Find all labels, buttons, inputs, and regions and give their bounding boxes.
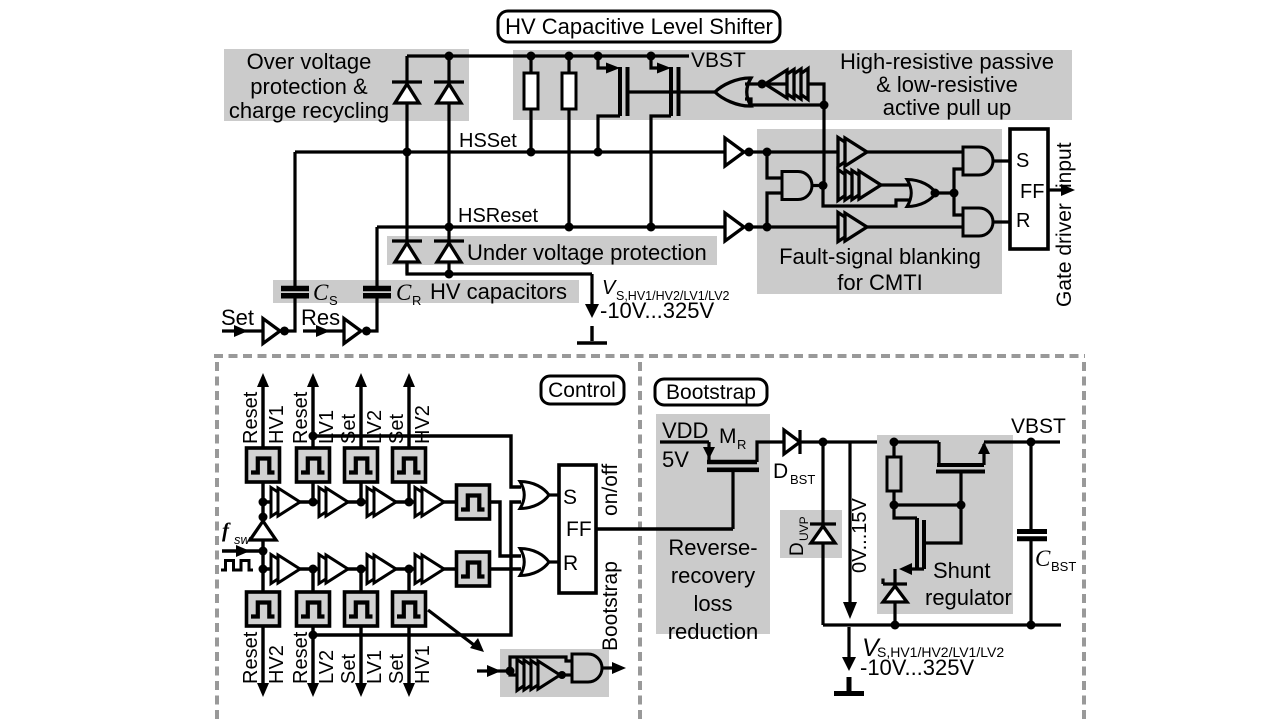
zener diode D-z (883, 579, 907, 626)
node dots top chain (259, 498, 414, 507)
label: shunt regulator (925, 558, 1012, 610)
svg-text:Set: Set (221, 305, 254, 330)
diode D-uvp1 (392, 241, 422, 274)
svg-text:HV1: HV1 (412, 645, 434, 684)
transistor M-sh2 (lower shunt MOS) (894, 505, 961, 584)
dashed separator horizontal (214, 354, 1085, 358)
buffer U-c1 (271, 488, 300, 517)
label: fault-signal blanking (779, 244, 981, 295)
svg-text:recovery: recovery (671, 563, 755, 588)
wire: VBST rail bootstrap (894, 440, 1060, 443)
delay element U-dly1 (left pointing) (765, 69, 808, 100)
delay element U-f2 (838, 170, 910, 201)
transistor M-sh1 (upper shunt PMOS) (936, 442, 990, 505)
svg-text:LV2: LV2 (316, 650, 338, 684)
label box: Bootstrap (655, 379, 767, 405)
pulse channel Set/LV2 (top) (338, 373, 386, 502)
capacitor CBST (1017, 442, 1047, 625)
label box: Control (541, 376, 624, 404)
svg-text:UVP: UVP (797, 516, 811, 541)
wire: gate line to NOR (627, 90, 716, 93)
svg-text:Set: Set (338, 414, 360, 444)
wire: S/R AND input link (954, 169, 963, 215)
diode DUVP (810, 442, 836, 625)
arrow: VS down (top section) (585, 274, 599, 318)
wire: top buffer chain (263, 500, 457, 503)
svg-text:LV2: LV2 (364, 410, 386, 444)
svg-text:M: M (719, 425, 737, 448)
grey box: high-resistive passive pull up (513, 50, 1072, 120)
svg-text:Bootstrap: Bootstrap (666, 381, 756, 404)
svg-text:S: S (563, 486, 577, 509)
wire: HSSet line (295, 150, 963, 153)
svg-text:Reset: Reset (290, 631, 312, 684)
pulse channel Set/LV1 (bottom) (338, 569, 386, 697)
node: uvp junction (445, 270, 454, 279)
svg-text:Reverse-: Reverse- (668, 535, 757, 560)
resistor R2 (562, 56, 576, 227)
symbol: clock waveform (221, 561, 253, 571)
wire: vertical to AND output node (822, 105, 825, 185)
label: fsw (222, 518, 252, 547)
diode DBST (784, 430, 894, 454)
svg-text:VDD: VDD (662, 418, 708, 443)
wire: R to FF (992, 220, 1010, 223)
flip-flop FF2 (control) (559, 465, 596, 593)
dashed separator right vertical (1082, 362, 1086, 722)
buffer U-br (HSReset buffer) (725, 213, 744, 241)
buffer U-c5 (271, 555, 300, 584)
svg-text:input: input (1053, 142, 1076, 188)
svg-text:Set: Set (338, 654, 360, 684)
and-gate U-f6 (S) (963, 147, 993, 175)
resistor R1 (524, 56, 538, 152)
wire: top feedback to S-OR (309, 432, 522, 488)
label: MR (719, 425, 746, 452)
buffer U-fsw (clock input) (250, 502, 276, 569)
pulse channel Reset/LV1 (top) (290, 373, 338, 502)
grey box: reverse-recovery loss reduction (656, 414, 770, 634)
label: DBST (773, 460, 815, 487)
ground: top section (577, 326, 607, 343)
capacitor CR (362, 227, 391, 336)
wire: HSReset line (377, 225, 963, 228)
buffer U-res with input (301, 305, 361, 344)
label: CS (313, 280, 338, 308)
label: VS,HV1/HV2/LV1/LV2 (600, 277, 730, 323)
wire: fsw input arrow (222, 545, 263, 557)
wire: legend bypass (510, 657, 572, 671)
svg-text:HSSet: HSSet (459, 130, 517, 152)
node: loop corner dot (820, 101, 829, 110)
buffer U-c2 (319, 488, 348, 517)
svg-text:on/off: on/off (599, 464, 622, 516)
grey box: fault-signal blanking (757, 129, 1002, 294)
buffer U-set with input (221, 305, 280, 344)
svg-text:HV2: HV2 (266, 645, 288, 684)
svg-text:BST: BST (790, 472, 815, 487)
capacitor CS (280, 152, 309, 336)
or-gate U-pu (left pointing) (715, 78, 751, 106)
wire: blanking lower path (823, 186, 910, 207)
wire: S to FF (992, 159, 1010, 162)
svg-text:Reset: Reset (240, 631, 262, 684)
node dots on rails (403, 52, 772, 232)
pulse channel Reset/HV2 (bottom) (240, 569, 288, 697)
svg-text:C: C (396, 280, 412, 305)
svg-text:reduction: reduction (668, 619, 759, 644)
buffer U-f5 (2 stage) (838, 213, 867, 242)
svg-text:Res: Res (301, 305, 340, 330)
dashed separator left vertical (215, 362, 219, 722)
node: mid node dots (890, 501, 966, 510)
and-gate U-f1 (767, 152, 828, 227)
label: CBST (1035, 546, 1076, 574)
pulse generator PG-R (457, 552, 490, 586)
pulse channel Reset/HV1 (top) (240, 373, 288, 502)
buffer U-c4 (415, 488, 444, 517)
node: zener bottom (891, 621, 900, 630)
arrow: legend pointer (428, 610, 484, 652)
wire: bootstrap bottom rail (823, 623, 1061, 626)
svg-text:Bootstrap: Bootstrap (599, 561, 622, 651)
buffer U-c8 (415, 555, 444, 584)
delay element U-leg1 (517, 660, 572, 691)
wire: legend input (477, 665, 518, 677)
svg-text:FF: FF (566, 518, 592, 541)
node: DBST output (819, 438, 828, 447)
svg-text:for CMTI: for CMTI (837, 270, 923, 295)
svg-text:regulator: regulator (925, 585, 1012, 610)
label: reverse-recovery text (668, 535, 759, 644)
svg-text:LV1: LV1 (316, 410, 338, 444)
ground: bootstrap (834, 677, 864, 694)
wire: VS node (top) (407, 262, 592, 274)
svg-text:FF: FF (1020, 181, 1044, 203)
buffer U-c7 (367, 555, 396, 584)
svg-text:Over voltage: Over voltage (247, 49, 372, 74)
svg-text:sw: sw (234, 532, 252, 547)
svg-text:loss: loss (693, 591, 732, 616)
pulse channel Reset/LV2 (bottom) (290, 569, 338, 697)
pulse generator PG-S (457, 485, 490, 519)
svg-text:Under voltage protection: Under voltage protection (467, 240, 707, 265)
svg-text:LV1: LV1 (364, 650, 386, 684)
or-gate U-or-r (520, 549, 559, 576)
grey box: shunt regulator (877, 435, 1013, 614)
svg-text:-10V...325V: -10V...325V (600, 298, 714, 323)
wire: PG-S output to R-OR (489, 502, 521, 556)
svg-text:Fault-signal blanking: Fault-signal blanking (779, 244, 981, 269)
transistor M-pu2 (PMOS pull-up) (651, 56, 679, 227)
wire: delay input loop (745, 84, 824, 105)
wire: bottom feedback to S-OR (309, 502, 522, 640)
or-gate U-f3 (907, 180, 959, 207)
transistor MR (660, 442, 784, 529)
diode D-ovp1 (392, 56, 422, 241)
svg-text:R: R (412, 293, 421, 308)
pulse channel Set/HV2 (top) (386, 373, 434, 502)
buffer U-c3 (367, 488, 396, 517)
svg-text:High-resistive passive: High-resistive passive (840, 49, 1054, 74)
svg-text:HV1: HV1 (266, 405, 288, 444)
transistor M-pu1 (PMOS pull-up) (598, 56, 628, 152)
label: CR (396, 280, 421, 308)
svg-text:C: C (1035, 546, 1051, 571)
svg-text:0V...15V: 0V...15V (849, 497, 871, 573)
svg-text:Reset: Reset (240, 391, 262, 444)
label: VDD 5V (662, 418, 708, 472)
buffer U-bs (HSSet buffer) (725, 138, 744, 166)
node: delay tip dot (758, 80, 767, 89)
svg-text:VBST: VBST (691, 49, 746, 72)
grey box: legend pulse generator (500, 649, 609, 697)
arrow: VS down (bootstrap) (842, 627, 856, 671)
svg-text:& low-resistive: & low-resistive (876, 72, 1018, 97)
title box: HV Capacitive Level Shifter (498, 11, 780, 42)
svg-text:5V: 5V (662, 447, 689, 472)
resistor R-sh (887, 442, 901, 505)
wire: FF output arrow (1048, 184, 1075, 196)
svg-text:R: R (737, 437, 746, 452)
svg-text:D: D (773, 460, 788, 483)
label: over voltage protection text (229, 49, 389, 123)
svg-text:S: S (1016, 150, 1029, 172)
diode D-ovp2 (434, 56, 464, 241)
node: VBST cap node (1027, 438, 1036, 447)
svg-text:HSReset: HSReset (458, 205, 538, 227)
grey box: over voltage protection & charge recycling (224, 49, 469, 121)
node: resistor top (890, 438, 899, 447)
buffer U-c6 (319, 555, 348, 584)
label: DUVP (rotated) (787, 516, 811, 556)
svg-text:R: R (1016, 210, 1030, 232)
label: VS bootstrap (860, 634, 1004, 680)
grey box: under voltage protection (387, 236, 717, 265)
and-gate U-leg2 (572, 654, 626, 682)
svg-text:BST: BST (1051, 559, 1076, 574)
wire: PG-R output to R-OR (489, 567, 521, 570)
grey box: DUVP label (780, 510, 842, 558)
grey box: HV capacitors (273, 280, 579, 303)
arrow: 0V...15V annotation (843, 442, 857, 619)
and-gate U-f7 (R) (963, 208, 993, 236)
wire: bottom buffer chain (263, 567, 457, 570)
wire: mid node link (894, 503, 961, 506)
pulse channel Set/HV1 (bottom) (386, 569, 434, 697)
svg-text:VBST: VBST (1011, 415, 1066, 438)
svg-text:-10V...325V: -10V...325V (860, 655, 974, 680)
or-gate U-or-s (520, 482, 559, 509)
svg-text:HV2: HV2 (412, 405, 434, 444)
node: CBST bottom (1027, 621, 1036, 630)
svg-text:active pull up: active pull up (883, 95, 1011, 120)
svg-text:protection &: protection & (250, 74, 368, 99)
svg-text:V: V (602, 277, 617, 299)
buffer U-f4 (2 stage) (838, 138, 867, 167)
svg-text:Set: Set (386, 654, 408, 684)
label: high-resistive passive text (840, 49, 1054, 120)
label: gate driver input (rotated) (1053, 142, 1076, 307)
svg-text:HV capacitors: HV capacitors (430, 279, 567, 304)
svg-text:C: C (313, 280, 329, 305)
svg-text:Set: Set (386, 414, 408, 444)
svg-text:charge recycling: charge recycling (229, 98, 389, 123)
flip-flop FF1 (1010, 129, 1048, 249)
svg-text:HV Capacitive Level Shifter: HV Capacitive Level Shifter (505, 14, 773, 39)
diode D-uvp2 (434, 241, 464, 274)
svg-text:Shunt: Shunt (933, 558, 991, 583)
svg-text:D: D (787, 542, 808, 556)
dashed separator middle vertical (638, 362, 642, 722)
node dots bottom chain (259, 565, 414, 574)
svg-text:Control: Control (548, 379, 616, 402)
svg-text:Gate driver: Gate driver (1053, 203, 1076, 307)
svg-text:R: R (563, 552, 578, 575)
wire: FF2 output to bootstrap (596, 527, 733, 530)
wire: VBST top rail (407, 54, 689, 57)
